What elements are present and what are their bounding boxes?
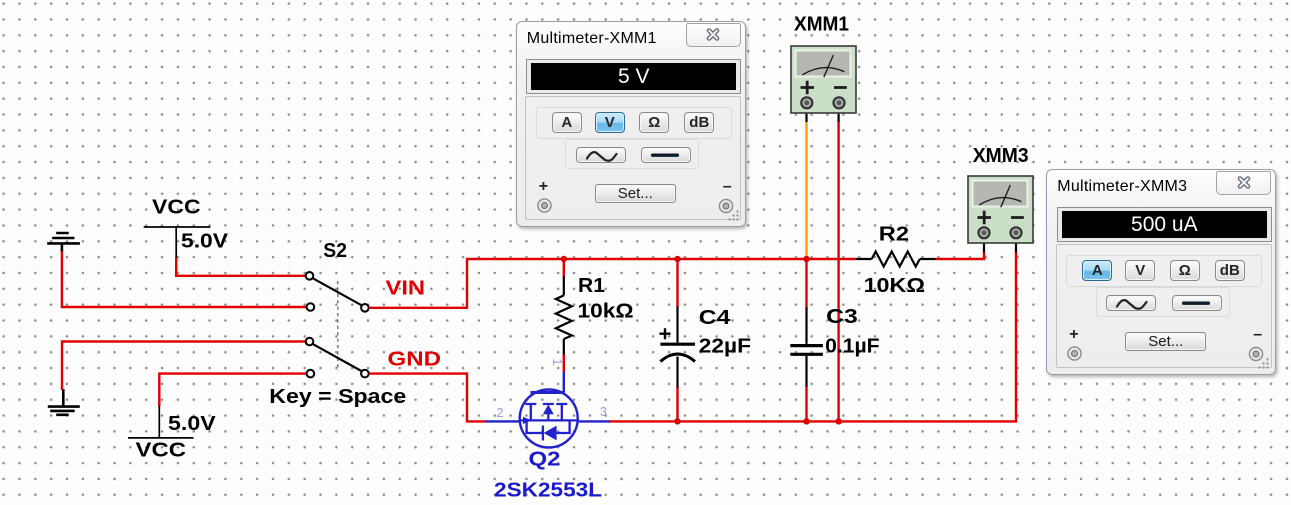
- junction node R1/top rail: [561, 256, 567, 262]
- wire VCC1 to switch T1: [176, 258, 306, 276]
- wire ground2 to switch T3: [62, 342, 306, 391]
- junction node C4/bottom rail: [674, 418, 680, 424]
- MOSFET Q2 body diode arrow: [544, 426, 557, 441]
- capacitor C4 (polarized): [660, 307, 696, 388]
- svg-text:1: 1: [550, 359, 564, 366]
- switch S2 terminals: [306, 272, 369, 377]
- MOSFET Q2 body circle: [520, 390, 578, 448]
- svg-text:Key = Space: Key = Space: [269, 385, 406, 408]
- svg-text:10kΩ: 10kΩ: [578, 300, 634, 323]
- junction node XMM1 minus/bottom rail: [835, 418, 841, 424]
- ground symbol (top left, flipped): [47, 233, 80, 252]
- power VCC symbol V2 (bottom): [128, 406, 194, 438]
- MOSFET Q2 channel arrow: [543, 405, 554, 415]
- svg-text:C3: C3: [826, 305, 858, 328]
- svg-text:GND: GND: [388, 348, 442, 371]
- resistor R1: [556, 277, 572, 357]
- XMM3 instrument icon lead stubs: [984, 243, 1016, 253]
- wire gate stub (blue): [486, 420, 521, 422]
- ground symbol (bottom left): [48, 389, 80, 415]
- wire ground1 to switch T2: [62, 251, 307, 307]
- wire VIN net: switch to top rail: [369, 259, 856, 308]
- svg-text:2: 2: [497, 406, 504, 420]
- svg-text:0.1µF: 0.1µF: [825, 335, 880, 358]
- svg-text:XMM3: XMM3: [973, 144, 1029, 167]
- resistor R2: [856, 252, 936, 267]
- switch S2 blade (lower pole): [313, 344, 361, 371]
- switch S2 blade (upper pole): [313, 278, 361, 305]
- svg-text:2SK2553L: 2SK2553L: [494, 479, 602, 502]
- svg-text:5.0V: 5.0V: [168, 412, 216, 435]
- multimeter icon XMM3: [968, 176, 1033, 243]
- switch S2 dashed link: [337, 281, 339, 371]
- wire XMM1 plus drop (orange): [805, 122, 807, 260]
- svg-text:VIN: VIN: [386, 277, 426, 300]
- junction node C3/bottom rail: [803, 418, 809, 424]
- svg-text:C4: C4: [699, 306, 731, 329]
- wire R1 top stub: [563, 259, 565, 278]
- multimeter dialog XMM1: [516, 21, 746, 227]
- XMM1 instrument icon lead stubs: [807, 112, 839, 122]
- svg-text:5.0V: 5.0V: [181, 230, 228, 253]
- svg-text:XMM1: XMM1: [794, 13, 849, 36]
- svg-text:10KΩ: 10KΩ: [864, 274, 925, 297]
- wire C3 stubs: [805, 259, 807, 421]
- pin 1 stub (red): [563, 355, 565, 373]
- wire source stub (blue): [577, 420, 611, 422]
- junction node C3/top rail: [803, 256, 809, 262]
- svg-text:3: 3: [600, 405, 607, 419]
- power VCC symbol V1 (top): [144, 227, 211, 259]
- MOSFET Q2 gate arrow: [523, 417, 532, 424]
- MOSFET Q2 internals: [520, 393, 576, 441]
- wire R2 right lead to XMM3 plus: [936, 252, 984, 260]
- svg-text:VCC: VCC: [136, 439, 187, 462]
- svg-text:Q2: Q2: [529, 448, 561, 471]
- wire XMM1 minus drop: [837, 122, 839, 422]
- multimeter dialog XMM3: [1046, 169, 1276, 375]
- wire C4 stubs: [676, 259, 678, 421]
- multimeter icon XMM1: [791, 46, 856, 113]
- svg-text:VCC: VCC: [152, 196, 201, 219]
- wire bottom rail (source net): [609, 252, 1016, 422]
- wire VCC2 to switch T4: [159, 374, 306, 407]
- svg-text:22µF: 22µF: [699, 335, 751, 358]
- MOSFET Q2 drain lead (blue): [563, 372, 565, 393]
- junction node C4/top rail: [674, 256, 680, 262]
- svg-text:R2: R2: [879, 223, 909, 246]
- capacitor C3: [790, 308, 823, 387]
- svg-text:S2: S2: [323, 239, 347, 262]
- wire GND net: switch to MOSFET gate: [369, 374, 487, 422]
- svg-text:R1: R1: [578, 274, 605, 297]
